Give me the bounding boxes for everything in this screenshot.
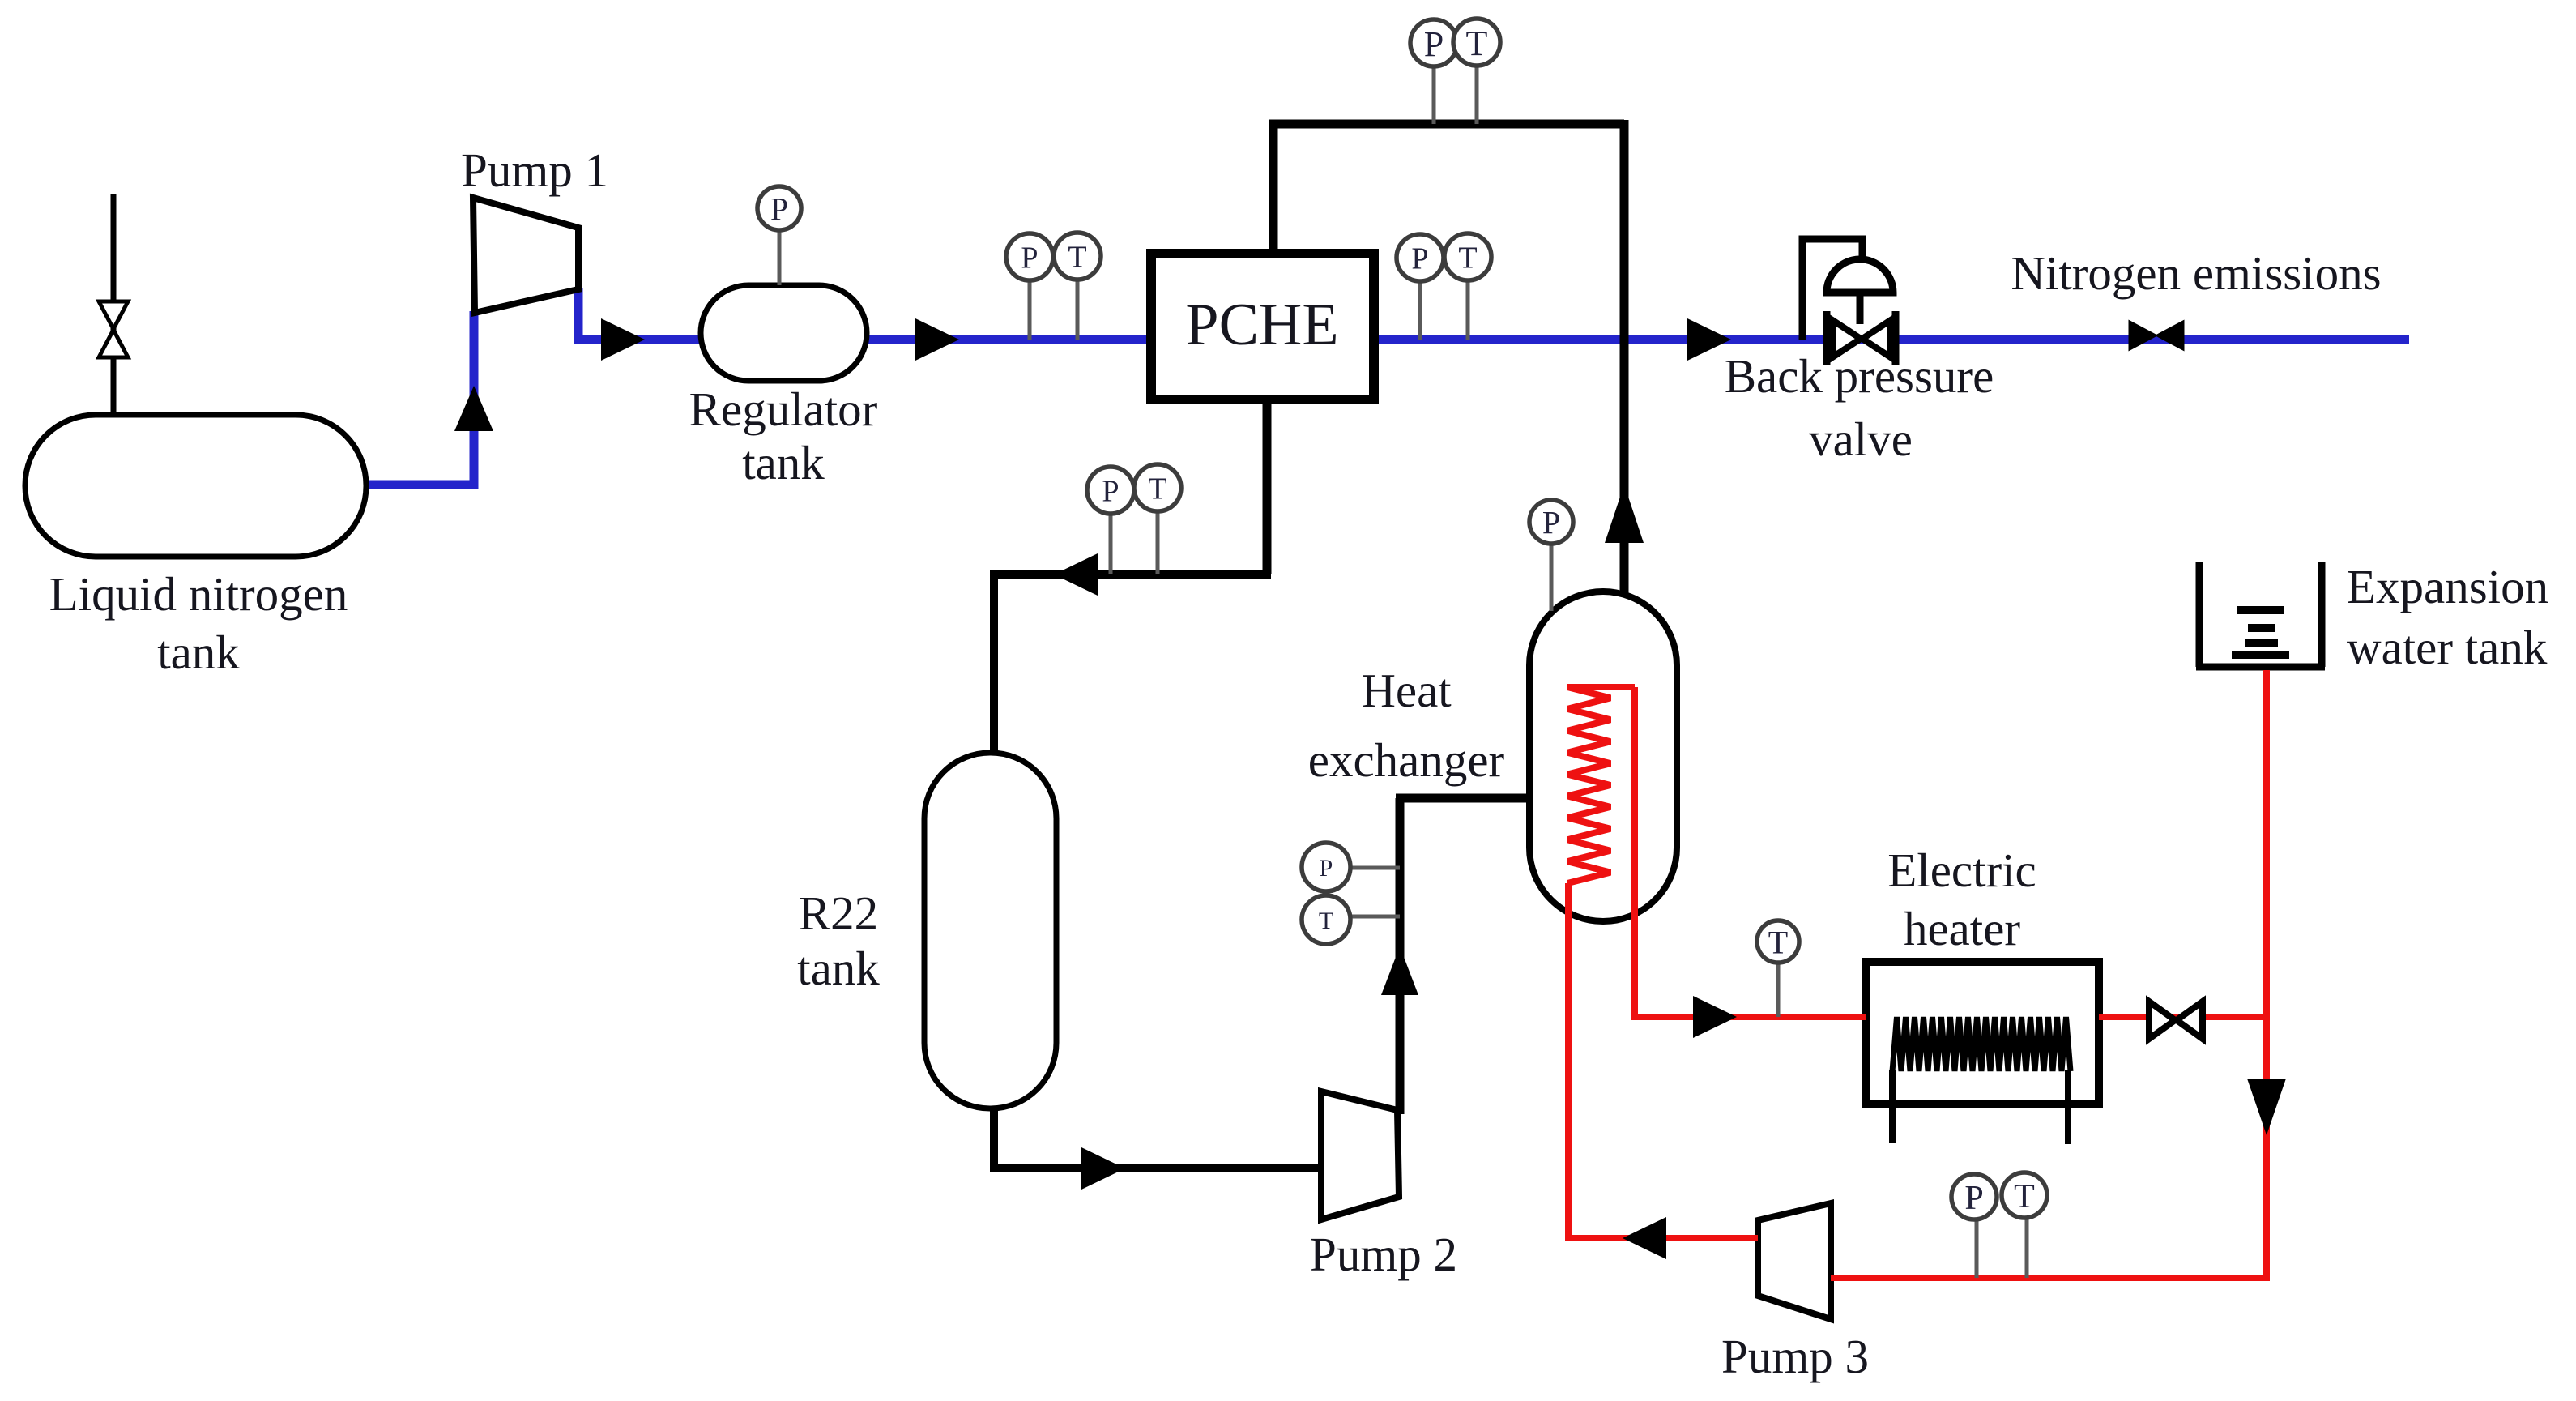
wire: R22 tank bottom stub: [990, 1102, 998, 1168]
svg-text:PCHE: PCHE: [1185, 292, 1338, 358]
back pressure valve actuator dome: [1827, 259, 1893, 293]
back pressure valve bracket: [1802, 239, 1862, 340]
red pipe: HX to electric heater: [1631, 1014, 1866, 1020]
wire: N2 vent pipe on LN2 tank: [111, 194, 117, 418]
R22 tank: [924, 753, 1056, 1108]
wire: blue pipe LN2 tank to riser: [366, 481, 474, 489]
red pipe: coil top to right downcomer: [1567, 684, 1635, 690]
red pipe: bottom return to Pump 3 inlet: [1831, 1275, 2267, 1281]
instrument gauge P pump2 riser: [1302, 843, 1400, 891]
wire: downcomer from top pipe to heat exchanger top: [1620, 120, 1629, 594]
svg-text:water tank: water tank: [2347, 621, 2548, 674]
arrow left toward R22 tank: [1054, 553, 1098, 596]
heat exchanger internal coil (red): [1567, 687, 1610, 883]
electric heater right leg: [2065, 1070, 2071, 1144]
svg-text:Regulator: Regulator: [689, 382, 878, 436]
instrument gauge T PCHE outlet: [1444, 233, 1491, 340]
pump P2 (Pump 2): [1321, 1091, 1399, 1219]
red pipe: pump 3 outlet to coil riser: [1565, 1235, 1758, 1241]
svg-text:tank: tank: [797, 942, 880, 995]
electric heater element coil: [1892, 1017, 2071, 1071]
svg-text:T: T: [1068, 241, 1086, 275]
instrument gauge P top-pipe: [1410, 19, 1457, 124]
arrow: Regulator tank to PCHE: [915, 318, 959, 361]
wire: top return pipe (HX to PCHE): [1269, 120, 1624, 129]
instrument gauge P PCHE outlet: [1397, 234, 1444, 340]
wire: blue Pump 1 outlet down then right to Regulator tank: [578, 288, 705, 340]
heat exchanger PCHE box: [1151, 254, 1374, 399]
svg-text:P: P: [1102, 475, 1119, 509]
svg-text:T: T: [1458, 241, 1477, 276]
liquid nitrogen tank: [25, 415, 366, 557]
pump P3 (Pump 3): [1758, 1203, 1831, 1319]
red pipe: electric heater outlet to junction: [2099, 1014, 2267, 1020]
arrow: Pump 1 to Regulator tank: [601, 318, 645, 361]
svg-text:Heat: Heat: [1361, 664, 1452, 717]
back pressure valve stem: [1857, 293, 1864, 324]
instrument gauge T PCHE inlet: [1054, 233, 1101, 340]
instrument gauge P regulator tank: [757, 186, 801, 285]
svg-text:heater: heater: [1904, 902, 2020, 955]
instrument gauge T pump2 riser: [1302, 895, 1400, 944]
wire: PCHE bottom outlet down: [1263, 399, 1272, 574]
svg-text:P: P: [770, 190, 788, 227]
red pipe: downcomer inside HX: [1631, 687, 1638, 1017]
svg-text:Pump 3: Pump 3: [1721, 1330, 1869, 1383]
pump P1 (Pump 1): [473, 198, 578, 313]
instrument gauge P R22 line: [1087, 467, 1134, 574]
svg-text:P: P: [1424, 24, 1444, 64]
arrow up on HX outlet riser: [1605, 485, 1644, 543]
electric heater box: [1866, 962, 2099, 1104]
expansion water tank: [2196, 562, 2325, 667]
arrow right toward Pump 2: [1081, 1147, 1125, 1190]
instrument gauge T top-pipe: [1453, 19, 1500, 124]
arrow: PCHE outlet toward back pressure valve: [1687, 318, 1731, 361]
wire: horizontal pipe PCHE to R22 tank: [994, 570, 1271, 579]
arrow down on expansion downcomer: [2247, 1079, 2286, 1135]
svg-text:P: P: [1411, 242, 1428, 276]
svg-text:R22: R22: [799, 886, 878, 940]
instrument gauge T R22 line: [1134, 464, 1181, 574]
svg-text:tank: tank: [157, 626, 240, 679]
instrument gauge P heat exchanger: [1529, 500, 1573, 611]
arrow up on riser to Pump 1: [454, 386, 493, 431]
svg-text:exchanger: exchanger: [1308, 733, 1505, 787]
wire: blue riser up to Pump 1 inlet: [470, 311, 479, 489]
svg-text:P: P: [1320, 855, 1333, 882]
instrument gauge T pump3 line: [2002, 1172, 2047, 1278]
svg-text:Back pressure: Back pressure: [1725, 349, 1994, 403]
svg-text:T: T: [1466, 23, 1488, 63]
nitrogen emissions valve: [2130, 322, 2183, 349]
instrument gauge P PCHE inlet: [1006, 233, 1053, 340]
svg-text:P: P: [1021, 241, 1038, 276]
svg-text:Pump 2: Pump 2: [1310, 1228, 1457, 1281]
vent valve on LN2 tank: [99, 301, 128, 357]
svg-text:Expansion: Expansion: [2347, 560, 2548, 613]
arrow left on pump 3 outlet line: [1623, 1217, 1666, 1259]
svg-text:tank: tank: [742, 436, 825, 489]
svg-text:T: T: [1319, 908, 1333, 934]
valve after electric heater: [2149, 1002, 2203, 1039]
svg-text:P: P: [1964, 1180, 1983, 1217]
svg-text:Pump 1: Pump 1: [461, 143, 608, 197]
svg-text:Nitrogen emissions: Nitrogen emissions: [2011, 246, 2381, 300]
heat exchanger vessel: [1529, 592, 1677, 921]
wire: blue main line Regulator tank to PCHE and onward to line end: [810, 335, 2409, 344]
svg-text:Electric: Electric: [1887, 844, 2036, 897]
svg-text:T: T: [1768, 924, 1788, 960]
arrow up on Pump 2 riser: [1381, 946, 1418, 995]
instrument gauge T heater inlet: [1757, 920, 1799, 1017]
regulator tank: [701, 285, 867, 381]
instrument gauge P pump3 line: [1951, 1174, 1997, 1278]
wire: R22 tank to Pump 2: [990, 1164, 1321, 1172]
back pressure valve body: [1827, 311, 1896, 365]
svg-text:T: T: [2014, 1178, 2035, 1215]
red pipe: expansion tank downcomer: [2263, 670, 2270, 1281]
svg-text:T: T: [1148, 472, 1166, 506]
wire: Pump 2 riser to heat exchanger left side: [1396, 794, 1529, 803]
svg-text:Liquid nitrogen: Liquid nitrogen: [49, 567, 348, 621]
arrow right toward electric heater: [1693, 996, 1737, 1038]
svg-text:P: P: [1542, 504, 1560, 540]
electric heater left leg: [1889, 1070, 1896, 1143]
wire: PCHE top riser: [1269, 124, 1278, 258]
wire: Pump 2 outlet riser: [1396, 798, 1405, 1114]
svg-text:valve: valve: [1809, 412, 1913, 466]
red pipe: coil bottom drop to pump 3 return: [1565, 883, 1572, 1238]
wire: drop into R22 tank top: [990, 570, 998, 758]
water level symbol in expansion tank: [2232, 610, 2289, 655]
